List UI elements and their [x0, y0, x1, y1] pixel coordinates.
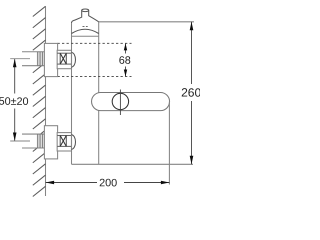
- lever pivot circle: [112, 93, 128, 109]
- dim 50±20 arrow line: [14, 59, 16, 140]
- upper pipe centerline: [10, 58, 30, 60]
- body right edge: [98, 22, 100, 165]
- dashed extension line bottom (escutcheon bottom): [58, 76, 132, 78]
- small center dashes: [83, 25, 88, 27]
- body top cylinder ellipse: [82, 9, 89, 12]
- lower union assembly: [57, 133, 71, 151]
- dim 68 arrow lines: [125, 43, 127, 76]
- dim 260 arrowheads: [190, 22, 194, 165]
- lower thread ticks: [37, 134, 44, 148]
- lever stadium shape: [92, 93, 170, 111]
- body edge through upper bump: [71, 53, 73, 68]
- lower pipe centerline: [10, 140, 30, 142]
- top extension line: [99, 21, 194, 23]
- wall hatching: [33, 6, 46, 196]
- lower connection bump: [72, 135, 76, 150]
- spout right edge / 200 extension line: [168, 102, 170, 185]
- upper union assembly: [57, 50, 71, 68]
- body left edge: [71, 23, 73, 164]
- lower escutcheon: [44, 126, 57, 159]
- lever pivot centerline: [119, 90, 121, 116]
- dim 50±20 arrowheads: [13, 59, 17, 141]
- dashed extension line top (escutcheon top): [58, 42, 132, 44]
- body edge through lower bump: [71, 135, 73, 150]
- upper escutcheon: [44, 43, 57, 76]
- faucet body outline: [72, 9, 99, 164]
- dim 260 arrow line: [191, 22, 193, 165]
- dim 200 arrow line: [46, 182, 170, 184]
- dim 68 arrowheads: [124, 43, 127, 76]
- svg-text:68: 68: [119, 55, 131, 67]
- dim 200 arrowheads: [46, 181, 170, 185]
- upper connection bump: [72, 53, 76, 68]
- upper thread ticks: [37, 52, 44, 66]
- body dome arc: [72, 29, 99, 33]
- lower supply pipe: [22, 134, 44, 148]
- wall edge line: [45, 6, 47, 196]
- upper supply pipe: [22, 52, 44, 66]
- svg-text:200: 200: [99, 177, 117, 189]
- bottom body line / extension: [72, 163, 194, 165]
- body top shoulders and cylinder: [72, 10, 99, 23]
- body horizontal line: [72, 35, 99, 37]
- svg-text:50±20: 50±20: [0, 96, 29, 108]
- svg-text:260: 260: [181, 86, 200, 100]
